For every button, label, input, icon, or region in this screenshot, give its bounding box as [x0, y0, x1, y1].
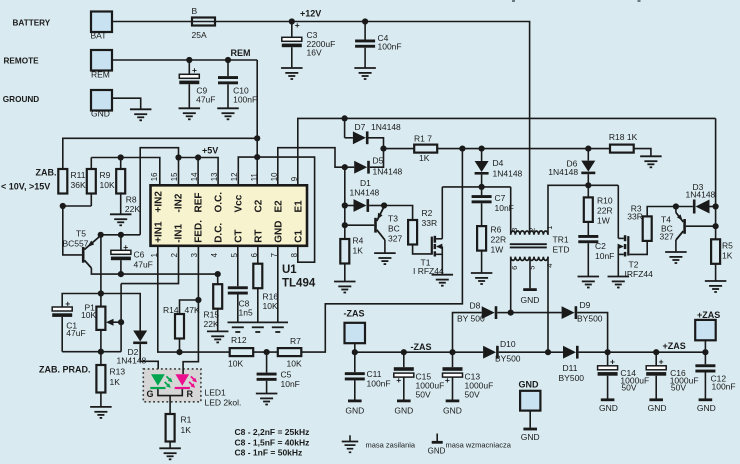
ground of R15	[207, 330, 229, 332]
wire D8 elbow	[453, 313, 482, 353]
wire REM vertical to pin 11	[256, 60, 258, 185]
svg-text:4: 4	[210, 252, 219, 257]
wire pin15 lead	[178, 158, 180, 186]
resistor R15 22K	[217, 274, 219, 284]
svg-text:3: 3	[190, 253, 199, 257]
svg-text:R1: R1	[181, 415, 192, 425]
wire pin5 CT	[237, 246, 239, 286]
wire divider feed to R11	[63, 138, 257, 169]
svg-text:GND: GND	[648, 403, 667, 413]
P1 wiper arrow	[108, 321, 121, 323]
wire wiper to bottom node	[120, 284, 122, 352]
GND bar of C11	[348, 399, 362, 402]
wire R8 to ground	[120, 192, 122, 214]
capacitor C8 1n5	[228, 286, 248, 289]
svg-text:+12V: +12V	[300, 9, 321, 19]
resistor R18 1K	[610, 145, 634, 153]
wire R17 node to D6 node	[462, 148, 588, 150]
svg-text:R12: R12	[231, 335, 247, 345]
svg-text:22K: 22K	[125, 204, 140, 214]
svg-text:BAT: BAT	[91, 31, 107, 41]
svg-text:1K: 1K	[181, 425, 192, 435]
node C3 junction	[289, 18, 295, 24]
diode D8 BY500	[482, 306, 495, 319]
wire P1 bottom	[100, 330, 102, 352]
wire REM box to REM net	[112, 59, 257, 61]
node C16 top	[653, 349, 659, 355]
node TR1 pin1 T2 drain D6	[585, 182, 591, 188]
svg-text:10K: 10K	[228, 359, 243, 369]
svg-text:GND: GND	[394, 406, 413, 416]
legend masa zasilania symbol	[349, 435, 351, 441]
wire pin2 to wiper riser	[121, 246, 178, 284]
svg-text:GROUND: GROUND	[3, 95, 39, 104]
transistor T3 BC327	[345, 224, 374, 226]
svg-text:1N4148: 1N4148	[373, 167, 403, 177]
ground of C2	[578, 276, 600, 278]
wire +5V loop to T5 emitter	[140, 148, 178, 235]
svg-text:T3: T3	[388, 214, 398, 224]
svg-text:GND: GND	[345, 406, 364, 416]
wire drive rail corner down	[715, 118, 717, 239]
svg-text:D.C.: D.C.	[213, 223, 224, 243]
wire divider node to +IN2 pin16	[91, 158, 160, 186]
capacitor C14 1000uF 50V	[607, 352, 609, 366]
svg-text:3: 3	[510, 228, 519, 232]
svg-text:1N4148: 1N4148	[493, 169, 523, 179]
wire T5 collector to pin4 DTC	[91, 268, 217, 274]
svg-text:1: 1	[545, 226, 554, 230]
svg-text:36K: 36K	[71, 180, 86, 190]
node R17 left	[380, 146, 386, 152]
svg-text:GND: GND	[599, 403, 618, 413]
node C6 top	[118, 232, 124, 238]
svg-text:T2: T2	[629, 260, 639, 270]
transistor T2 IRFZ44	[624, 235, 627, 241]
wire T2 gate to R3	[629, 241, 647, 255]
node R14 bottom	[176, 349, 182, 355]
node R8 top	[118, 154, 124, 160]
svg-text:TL494: TL494	[282, 278, 316, 290]
svg-text:TR1: TR1	[553, 235, 569, 245]
resistor R6 22R 1W	[477, 226, 486, 251]
GND bar of C13	[446, 399, 460, 402]
svg-text:C7: C7	[495, 193, 506, 203]
wire pin1 lead to feedback node	[158, 246, 230, 352]
wire TR1 pin3 riser	[510, 187, 512, 235]
svg-text:LED1: LED1	[205, 388, 227, 398]
resistor R16 10K	[253, 264, 262, 289]
resistor R1 1K	[166, 414, 175, 442]
svg-text:5: 5	[527, 266, 536, 270]
svg-text:RT: RT	[253, 229, 264, 242]
resistor R14 47K	[179, 339, 181, 353]
svg-text:BC: BC	[388, 224, 400, 234]
svg-text:CT: CT	[233, 229, 244, 242]
capacitor C13 1000uF 50V	[452, 352, 454, 367]
svg-text:REM: REM	[231, 48, 251, 58]
crop stub 1	[512, 0, 515, 2]
node D4 top	[479, 146, 485, 152]
svg-text:-ZAS: -ZAS	[344, 309, 365, 319]
diode D2 1N4148	[133, 331, 147, 342]
GND bar of C15	[397, 399, 411, 402]
svg-text:C5: C5	[281, 370, 292, 380]
wire pin7 GND	[277, 246, 279, 323]
node +ZAS C14	[605, 349, 611, 355]
svg-text:BY500: BY500	[559, 373, 585, 383]
svg-text:D11: D11	[563, 363, 578, 373]
ground of C5	[256, 393, 278, 395]
capacitor C10 100nF	[227, 60, 229, 76]
wire T5 emitter node	[101, 234, 141, 236]
svg-text:1n5: 1n5	[239, 308, 253, 318]
ground of pin7	[272, 326, 284, 328]
svg-text:R14: R14	[163, 305, 179, 315]
svg-text:1: 1	[150, 253, 159, 257]
node C4 junction	[362, 18, 368, 24]
ground of R13	[90, 406, 112, 408]
svg-text:1W: 1W	[491, 245, 504, 255]
svg-text:E1: E1	[293, 200, 304, 213]
svg-text:GND: GND	[521, 432, 540, 442]
capacitor C11 100nF	[354, 352, 356, 372]
wire fuse to +12V rail corner	[215, 22, 530, 235]
wire R7 to -ZAS sense riser	[301, 149, 462, 353]
svg-text:-ZAS: -ZAS	[411, 342, 432, 352]
svg-text:22K: 22K	[204, 319, 219, 329]
legend masa wzmacniacza symbol	[436, 434, 438, 442]
diode D3 1N4148	[676, 206, 693, 208]
svg-text:GND: GND	[91, 109, 110, 119]
resistor R17 1K	[384, 148, 415, 150]
svg-text:BATTERY: BATTERY	[13, 19, 51, 28]
svg-text:+: +	[659, 357, 664, 367]
node winding4	[545, 349, 551, 355]
svg-text:GND: GND	[521, 295, 540, 305]
wire to D9	[511, 312, 562, 314]
svg-text:GND: GND	[697, 403, 716, 413]
node T4 emitter	[673, 203, 679, 209]
ground of R4	[334, 281, 356, 283]
node C10 junction	[225, 57, 231, 63]
wire GND terminal to ground	[112, 98, 141, 109]
resistor R2 33R	[408, 220, 417, 245]
svg-text:2: 2	[170, 253, 179, 257]
node current limit junction	[98, 349, 104, 355]
diode D10 BY500	[483, 346, 496, 359]
diode D9 BY500	[562, 306, 575, 319]
svg-text:100nF: 100nF	[712, 381, 736, 391]
svg-text:C1: C1	[293, 230, 304, 243]
svg-text:1N4148: 1N4148	[686, 190, 716, 200]
ground of C4	[354, 67, 376, 69]
svg-text:masa wzmacniacza: masa wzmacniacza	[446, 441, 512, 450]
terminal BAT box	[91, 12, 112, 33]
svg-text:12: 12	[230, 173, 239, 182]
wire anode chain	[344, 167, 346, 225]
svg-text:4: 4	[545, 264, 554, 268]
svg-text:2: 2	[527, 228, 536, 232]
svg-text:C8 - 1,5nF = 40kHz: C8 - 1,5nF = 40kHz	[235, 437, 310, 447]
node +5V P1 wire	[98, 290, 104, 296]
node D4 C7 TR1-3	[479, 184, 485, 190]
svg-text:47uF: 47uF	[66, 328, 85, 338]
svg-text:15: 15	[170, 172, 179, 181]
svg-text:ZAB. PRAD.: ZAB. PRAD.	[39, 365, 91, 375]
wire -ZAS row	[355, 351, 483, 353]
svg-text:U1: U1	[282, 264, 297, 276]
svg-text:R15: R15	[204, 310, 220, 320]
svg-text:< 10V, >15V: < 10V, >15V	[1, 182, 50, 192]
node T5 emitter	[98, 232, 104, 238]
resistor R8 22K	[120, 158, 122, 170]
GND bar of C14	[601, 398, 615, 401]
resistor R10 22R 1W	[587, 185, 589, 197]
svg-text:O.C.: O.C.	[213, 192, 224, 213]
svg-text:10K: 10K	[287, 359, 302, 369]
svg-text:10K: 10K	[81, 310, 96, 320]
node P1 wiper	[118, 319, 124, 325]
node pin3 R14	[195, 297, 201, 303]
wire GND box lead	[529, 411, 531, 428]
capacitor C12 100nF	[704, 352, 706, 364]
capacitor C6 47uF	[120, 235, 122, 251]
svg-text:100nF: 100nF	[233, 94, 257, 104]
svg-text:BY 500: BY 500	[457, 314, 485, 324]
svg-text:+: +	[396, 375, 401, 385]
wire +ZAS row	[608, 351, 706, 353]
svg-text:1W: 1W	[597, 216, 610, 226]
svg-text:-IN1: -IN1	[173, 223, 184, 242]
svg-text:G: G	[147, 389, 154, 399]
svg-text:R6: R6	[491, 225, 502, 235]
svg-text:327: 327	[660, 232, 674, 242]
ground of R6	[471, 272, 493, 274]
node REM Vcc junction	[254, 154, 260, 160]
svg-text:B: B	[192, 6, 198, 16]
resistor R11 36K	[58, 169, 67, 194]
node winding6 D8 D9	[508, 310, 514, 316]
wire TR1 pin6 drop	[510, 257, 512, 313]
node REM to divider feed	[254, 135, 260, 141]
node C9 junction	[186, 57, 192, 63]
svg-text:D5: D5	[373, 156, 384, 166]
resistor R4 1K	[344, 225, 346, 239]
ground of R8	[110, 213, 132, 215]
wire E2 pin10 to diode chain	[278, 148, 345, 186]
node +5V pin15	[175, 154, 181, 160]
svg-text:D1: D1	[360, 178, 371, 188]
svg-text:327: 327	[388, 234, 402, 244]
resistor R5 1K	[711, 239, 720, 263]
ground of T2 source	[608, 276, 630, 278]
ground bar of pins 5 6 7	[228, 321, 289, 323]
svg-text:FED.: FED.	[193, 220, 204, 243]
svg-text:100nF: 100nF	[378, 42, 402, 52]
ground of C10	[217, 107, 239, 109]
wire R12 to node	[253, 351, 278, 353]
wire R2 to T1 gate	[413, 245, 432, 254]
svg-text:C6: C6	[134, 250, 145, 260]
node -ZAS C11	[352, 349, 358, 355]
svg-text:+: +	[295, 20, 300, 30]
svg-text:10nF: 10nF	[281, 379, 300, 389]
capacitor C4 100nF	[364, 22, 366, 40]
ground of R18	[640, 155, 662, 157]
svg-text:D7: D7	[355, 122, 366, 132]
diode D4 1N4148	[481, 149, 483, 161]
wire gate node to R2	[384, 206, 413, 221]
svg-text:R4: R4	[353, 236, 364, 246]
ground of T4	[665, 251, 687, 253]
svg-text:1N4148: 1N4148	[350, 188, 380, 198]
node T3 gate-node	[381, 202, 387, 208]
svg-text:Vcc: Vcc	[233, 194, 244, 212]
ground of C9	[179, 107, 201, 109]
svg-text:47uF: 47uF	[134, 260, 153, 270]
svg-text:R16: R16	[263, 292, 279, 302]
svg-text:+IN2: +IN2	[153, 191, 164, 213]
svg-text:33R: 33R	[422, 218, 438, 228]
wire +5V riser to P1	[100, 235, 102, 307]
transistor T4 BC327	[675, 207, 677, 213]
svg-text:REM: REM	[91, 70, 110, 80]
svg-text:C2: C2	[595, 241, 606, 251]
svg-text:IRFZ44: IRFZ44	[625, 269, 654, 279]
node feedback riser	[459, 146, 465, 152]
node pin4	[215, 271, 221, 277]
node C6 bottom	[118, 271, 124, 277]
terminal GND box	[91, 90, 112, 111]
wire C1 bottom to node	[62, 351, 121, 353]
node T3 base	[342, 222, 348, 228]
terminal REM box	[91, 50, 112, 71]
wire R18 row	[588, 148, 610, 150]
GND bar of GND box	[523, 428, 537, 431]
ground of C3	[281, 67, 303, 69]
node C5	[264, 349, 270, 355]
svg-text:T5: T5	[76, 229, 86, 239]
svg-text:GND: GND	[443, 406, 462, 416]
transistor T1 IRFZ44	[431, 237, 433, 255]
node D5 anode	[342, 164, 348, 170]
svg-text:+: +	[192, 65, 197, 75]
svg-text:8: 8	[290, 253, 299, 257]
ground of R5	[705, 280, 727, 282]
svg-text:16: 16	[150, 173, 159, 182]
svg-text:D9: D9	[580, 300, 591, 310]
svg-text:BY500: BY500	[495, 354, 521, 364]
svg-text:R7: R7	[290, 336, 301, 346]
svg-text:1K: 1K	[722, 251, 733, 261]
svg-text:1N4148: 1N4148	[548, 167, 578, 177]
svg-text:+ZAS: +ZAS	[663, 341, 686, 351]
node D3 anode	[713, 203, 719, 209]
resistor R12 10K	[230, 348, 254, 356]
crop stub 2	[638, 0, 641, 2]
svg-text:33R: 33R	[627, 212, 643, 222]
svg-text:50V: 50V	[465, 390, 480, 400]
ground of GND terminal	[130, 108, 152, 110]
svg-text:R11: R11	[71, 170, 86, 180]
svg-text:1K: 1K	[110, 377, 121, 387]
node C13 D8 junction	[449, 349, 455, 355]
svg-text:-IN2: -IN2	[173, 193, 184, 212]
wire T1 drain to TR1 pin3 node	[442, 186, 510, 188]
svg-text:REMOTE: REMOTE	[4, 57, 40, 66]
svg-text:5: 5	[230, 252, 239, 257]
IC U1 TL494 body	[151, 185, 308, 246]
svg-text:C8 - 1nF = 50kHz: C8 - 1nF = 50kHz	[235, 448, 303, 458]
svg-text:ETD: ETD	[553, 245, 570, 255]
resistor R13 1K	[100, 352, 102, 365]
wire pin6 RT	[257, 246, 259, 264]
svg-text:13: 13	[210, 173, 219, 182]
svg-text:1K: 1K	[353, 246, 364, 256]
wire R11 node to T5 base	[63, 206, 82, 255]
svg-text:REF: REF	[193, 193, 204, 213]
wire TR1 pin1 riser to D6 node	[548, 185, 618, 234]
svg-text:50V: 50V	[671, 383, 686, 393]
wire LED cathodes common	[158, 389, 182, 396]
svg-text:25A: 25A	[192, 30, 207, 40]
node T4 base R5	[713, 223, 719, 229]
svg-text:11: 11	[250, 173, 259, 181]
svg-text:+: +	[445, 375, 450, 385]
svg-text:+5V: +5V	[202, 146, 218, 156]
TR1 GND bar	[523, 288, 537, 291]
wire R11 bottom to R9 bottom	[63, 205, 92, 207]
wire E1 pin9 to drive rail	[298, 118, 716, 185]
svg-text:10K: 10K	[263, 301, 278, 311]
node +5V pin14 REF	[195, 154, 201, 160]
svg-text:D4: D4	[493, 158, 504, 168]
diode D7 1N4148	[344, 118, 346, 137]
svg-text:BY500: BY500	[577, 314, 603, 324]
node R18 tap D6	[585, 146, 591, 152]
svg-text:ZAB.: ZAB.	[36, 168, 57, 178]
svg-text:16V: 16V	[307, 47, 322, 57]
resistor R9 10K	[90, 158, 92, 170]
svg-text:+IN1: +IN1	[153, 221, 164, 243]
ground of R1	[159, 447, 181, 449]
svg-text:C2: C2	[253, 199, 264, 212]
ground of pin5	[232, 326, 244, 328]
svg-text:GND: GND	[428, 447, 446, 456]
svg-text:22R: 22R	[491, 235, 507, 245]
svg-text:1N4148: 1N4148	[371, 122, 401, 132]
wire +5V rail	[179, 158, 219, 186]
diode D1 1N4148	[345, 205, 354, 207]
svg-text:masa zasilania: masa zasilania	[366, 441, 416, 450]
svg-text:GND: GND	[519, 379, 540, 389]
svg-text:E2: E2	[273, 200, 284, 213]
capacitor C15 1000uF 50V	[403, 352, 405, 367]
wire pin3 lead to LED R	[183, 246, 198, 369]
capacitor C7 10nF	[481, 187, 483, 195]
svg-text:10K: 10K	[100, 180, 115, 190]
svg-text:LED 2kol.: LED 2kol.	[205, 398, 242, 408]
GND bar of C16	[649, 398, 663, 401]
svg-text:GND: GND	[273, 221, 284, 243]
svg-text:R13: R13	[110, 367, 126, 377]
wire pin14 lead	[197, 158, 199, 186]
wire -ZAS box lead	[354, 343, 356, 352]
capacitor C2 10nF	[578, 235, 598, 238]
diode D5 1N4148	[345, 166, 354, 168]
svg-text:14: 14	[190, 172, 199, 181]
